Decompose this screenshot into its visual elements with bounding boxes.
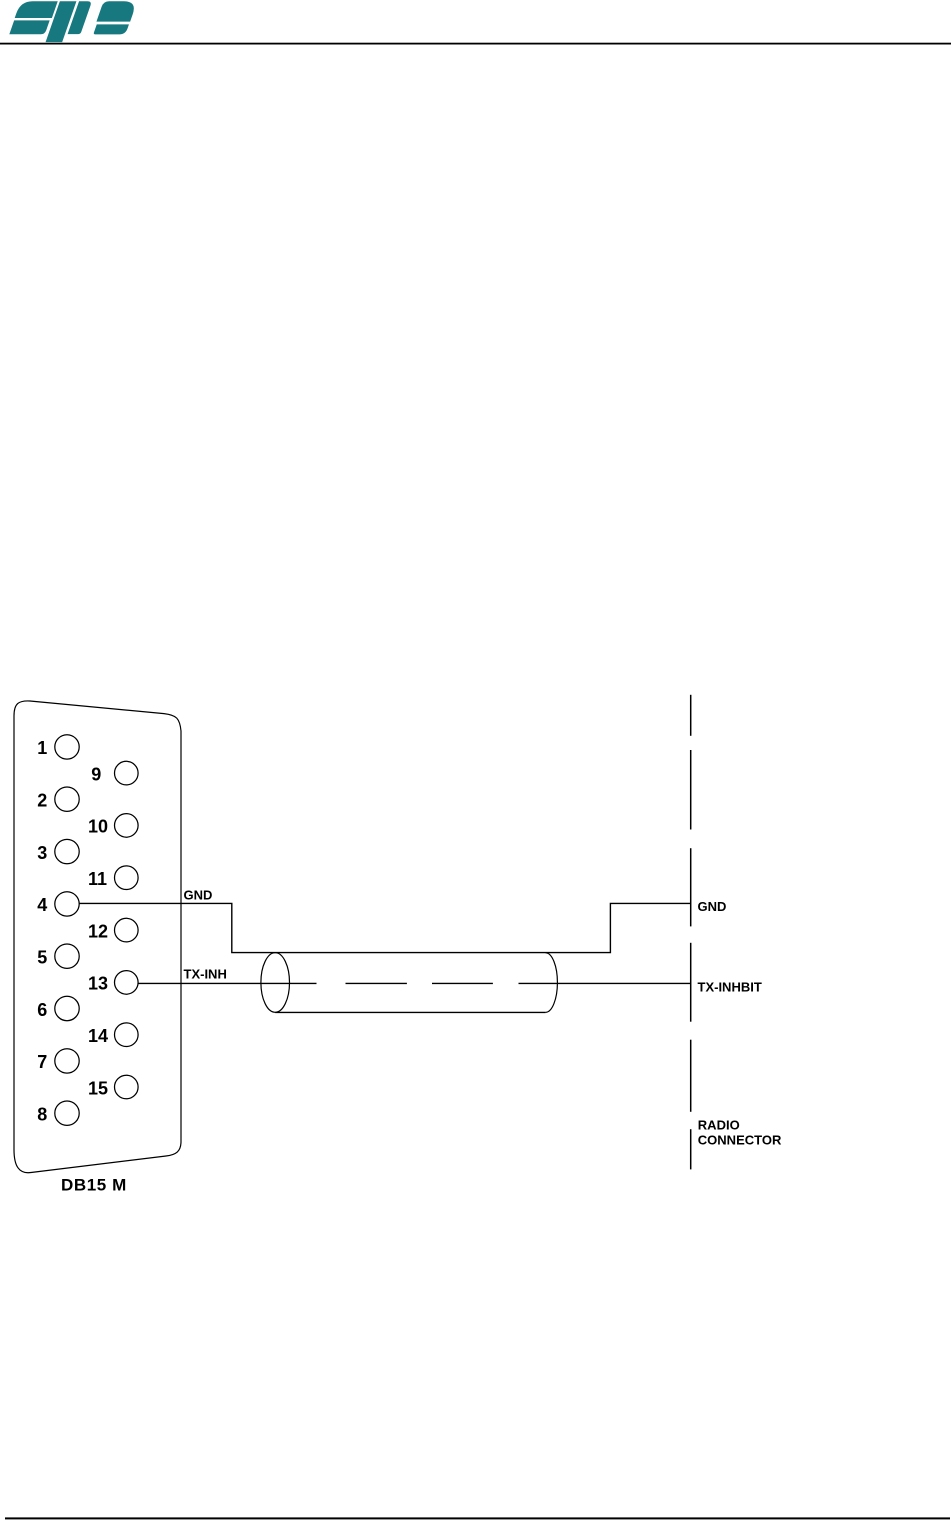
- svg-text:RADIO: RADIO: [698, 1117, 740, 1132]
- svg-text:GND: GND: [698, 899, 727, 914]
- svg-text:GND: GND: [184, 888, 213, 903]
- svg-text:6: 6: [37, 1000, 47, 1020]
- svg-text:4: 4: [37, 895, 47, 915]
- svg-text:3: 3: [37, 843, 47, 863]
- svg-text:11: 11: [88, 869, 107, 889]
- svg-text:12: 12: [88, 921, 108, 941]
- svg-text:1: 1: [37, 738, 47, 758]
- svg-text:TX-INHBIT: TX-INHBIT: [698, 980, 762, 995]
- svg-text:2: 2: [37, 791, 47, 811]
- svg-text:CONNECTOR: CONNECTOR: [698, 1132, 782, 1147]
- svg-text:TX-INH: TX-INH: [184, 966, 227, 981]
- svg-text:5: 5: [37, 948, 47, 968]
- svg-text:10: 10: [88, 817, 108, 837]
- svg-text:DB15 M: DB15 M: [61, 1176, 127, 1195]
- svg-text:14: 14: [88, 1026, 108, 1046]
- svg-text:15: 15: [88, 1078, 108, 1098]
- svg-text:13: 13: [88, 974, 108, 994]
- svg-text:7: 7: [37, 1052, 47, 1072]
- svg-text:9: 9: [91, 764, 101, 784]
- svg-text:8: 8: [37, 1105, 47, 1125]
